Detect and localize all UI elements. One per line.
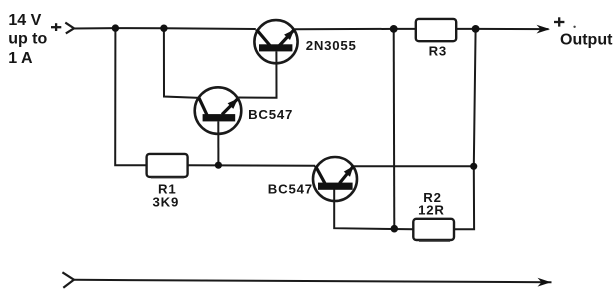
svg-text:12R: 12R [418,203,445,218]
svg-text:R3: R3 [429,44,447,59]
svg-text:14 V: 14 V [8,12,41,29]
svg-text:1 A: 1 A [8,50,33,67]
svg-text:up to: up to [8,31,47,48]
svg-text:BC547: BC547 [268,181,313,196]
svg-text:BC547: BC547 [248,107,293,122]
svg-text:3K9: 3K9 [153,194,180,209]
svg-text:2N3055: 2N3055 [306,38,357,53]
svg-text:Output: Output [560,31,613,48]
